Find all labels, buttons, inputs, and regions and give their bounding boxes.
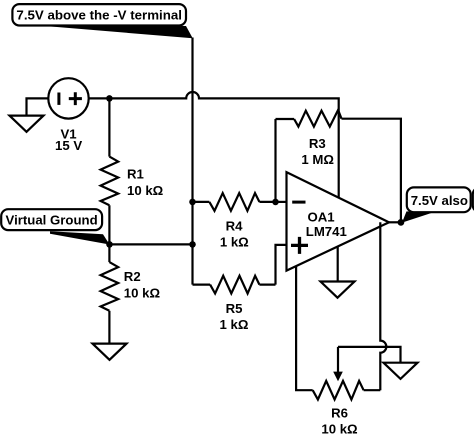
wire: virtual ground node to center column <box>110 243 193 245</box>
label R6 value <box>321 405 358 435</box>
label R4 value <box>220 218 249 249</box>
label V1 value <box>55 126 82 153</box>
label R1 value <box>127 166 164 198</box>
callout: "7.5V above the -V terminal" <box>12 4 186 25</box>
resistor R3 (feedback) <box>276 110 342 127</box>
svg-text:R6: R6 <box>331 405 348 420</box>
wire: offset null pin 1 down to R6 left <box>296 266 313 390</box>
svg-text:R2: R2 <box>124 269 141 284</box>
node: inverting input node <box>272 199 279 206</box>
wire: wiper to ground <box>338 347 401 363</box>
callout tail (to center column) <box>45 26 193 38</box>
ground (wiper) <box>384 363 418 379</box>
ground (op-amp V-) <box>321 282 355 298</box>
op-amp OA1 (LM741) <box>287 172 390 271</box>
svg-text:7.5V above the -V terminal: 7.5V above the -V terminal <box>16 8 182 23</box>
svg-text:10 kΩ: 10 kΩ <box>321 422 358 435</box>
partial callout box clipped at right edge <box>473 187 474 212</box>
svg-text:7.5V also: 7.5V also <box>411 193 468 208</box>
svg-text:Virtual Ground: Virtual Ground <box>6 213 98 228</box>
svg-text:R3: R3 <box>309 136 326 151</box>
label R5 value <box>220 301 249 332</box>
wire: center column from callout tip down to R5 corner <box>191 38 193 285</box>
voltage source V1 <box>48 78 88 118</box>
potentiometer R6 <box>313 381 381 400</box>
callout: "Virtual Ground" <box>1 209 102 230</box>
node: center column / bottom wire junction <box>189 241 196 248</box>
svg-text:R5: R5 <box>226 301 243 316</box>
resistor R4 <box>193 193 276 211</box>
svg-text:R4: R4 <box>226 218 244 233</box>
wire: R5 to non-inverting input <box>276 245 287 285</box>
label R2 value <box>124 269 161 301</box>
svg-text:LM741: LM741 <box>306 224 347 239</box>
node: center column / R4 junction <box>189 199 196 206</box>
resistor R5 <box>193 276 276 294</box>
callout tail (to virtual ground node) <box>50 231 110 244</box>
resistor R1 <box>101 98 119 244</box>
svg-text:R1: R1 <box>127 166 144 181</box>
ground (V1 negative) <box>10 116 44 132</box>
node: output <box>398 219 405 226</box>
callout: "7.5V also" <box>407 187 471 212</box>
wire: output lead <box>389 221 401 223</box>
ground (below R2) <box>93 344 127 360</box>
wire: op-amp V- pin <box>337 246 339 281</box>
wire: feedback riser from inverting node <box>274 119 276 202</box>
svg-text:1 kΩ: 1 kΩ <box>220 317 249 332</box>
svg-text:OA1: OA1 <box>307 209 334 224</box>
wire: inverting input to op-amp <box>276 201 287 203</box>
node: virtual ground node <box>106 241 113 248</box>
svg-text:10 kΩ: 10 kΩ <box>124 286 161 301</box>
svg-text:1 kΩ: 1 kΩ <box>220 235 249 250</box>
svg-text:1 MΩ: 1 MΩ <box>301 152 334 167</box>
wire: R3 to output node <box>342 119 401 223</box>
label R3 value <box>301 136 334 167</box>
wire: +15V rail from V1 to op-amp V+ pin (hop over center column) <box>89 92 339 198</box>
node: V1+/R1 junction <box>106 95 113 102</box>
resistor R2 <box>101 244 119 343</box>
svg-text:10 kΩ: 10 kΩ <box>127 183 164 198</box>
wiper arrow of R6 <box>333 347 343 381</box>
svg-text:15 V: 15 V <box>55 138 82 153</box>
callout tail (to output node) <box>402 211 433 222</box>
wire: V1 negative lead <box>27 98 49 115</box>
wire: offset null pin 5 down to R6 right (hop over wiper wire) <box>380 222 386 390</box>
